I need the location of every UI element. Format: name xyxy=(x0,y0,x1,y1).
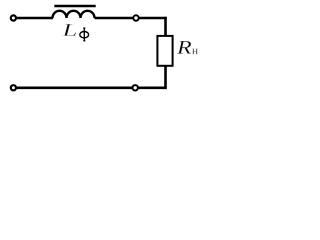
inductor L1 (Lф) xyxy=(53,11,95,18)
node N1 (top mid circle) xyxy=(133,15,138,20)
label Lф xyxy=(62,24,88,41)
wire right vertical upper (corner to resistor top) xyxy=(164,17,167,36)
node N2 (bottom mid circle) xyxy=(133,85,138,90)
wire top-right (inductor to corner) xyxy=(95,17,167,20)
terminal T2 (bottom-left input) xyxy=(11,85,16,90)
core bar above inductor xyxy=(54,5,95,8)
wire bottom (corner to terminal) xyxy=(16,87,167,90)
label Rн xyxy=(177,41,198,54)
resistor R1 (Rн) xyxy=(157,36,172,66)
wire top-left (terminal to inductor) xyxy=(16,17,53,20)
wire right vertical lower (resistor bottom to corner) xyxy=(164,66,167,89)
terminal T1 (top-left input) xyxy=(11,15,16,20)
